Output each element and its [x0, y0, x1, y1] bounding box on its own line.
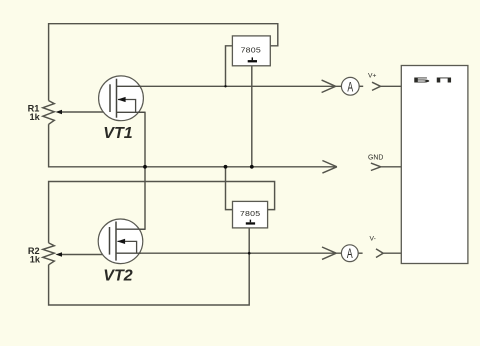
svg-text:A: A: [347, 246, 353, 262]
svg-text:A: A: [347, 79, 353, 95]
svg-text:БП: БП: [413, 76, 458, 84]
wire ammeter PA1 to V+ port: [359, 85, 363, 87]
svg-text:VT2: VT2: [103, 268, 132, 285]
wire R2 wiper to VT2 gate: [62, 254, 110, 256]
svg-text:GND: GND: [368, 155, 383, 162]
wire U2 output rail to R2 top: [49, 182, 275, 243]
svg-text:V+: V+: [368, 73, 376, 80]
wire V- port to PSU box: [382, 252, 402, 254]
big arrow on GND line: [322, 161, 337, 174]
wire R1 wiper to VT1 gate: [62, 111, 111, 113]
wire VT2 source to V- ammeter: [116, 252, 341, 254]
big arrow on V+ line: [322, 80, 336, 92]
node junction V- / U2 ground: [248, 252, 251, 255]
wire ammeter PA2 to V- port: [358, 252, 363, 254]
wire GND port to PSU box: [380, 166, 402, 168]
label R1 value: [28, 104, 41, 123]
R2 wiper arrow: [56, 252, 63, 257]
wire VT1 source to VT2 drain: [116, 112, 145, 229]
wire U2 input pin from GND rail: [226, 167, 233, 210]
svg-text:1k: 1k: [29, 112, 40, 122]
transistor VT1 (MOSFET): [99, 76, 145, 121]
node junction V+ / U1 input: [224, 85, 226, 87]
wire R2 bottom loop to U2 ground pin: [49, 228, 250, 305]
svg-text:7805: 7805: [241, 46, 262, 54]
R1 wiper arrow: [56, 110, 63, 115]
PSU box БП: [401, 66, 468, 264]
port arrow V-: [376, 249, 383, 258]
port arrow V+: [372, 82, 381, 90]
wire VT1 drain to V+ ammeter: [117, 85, 342, 87]
wire U1 input pin to V+ rail: [226, 46, 233, 87]
resistor R1 (potentiometer): [43, 101, 55, 125]
svg-text:V-: V-: [370, 236, 376, 243]
svg-text:VT1: VT1: [103, 125, 132, 142]
node junction GND / U1 ground: [250, 165, 254, 169]
label R2 value: [28, 246, 41, 265]
wire R1 bottom to GND rail: [49, 124, 337, 167]
svg-text:1k: 1k: [30, 255, 41, 265]
wire top loop: 7805 U1 output to R1 top: [49, 24, 278, 101]
wire U1 ground pin to GND rail: [251, 66, 253, 167]
ammeter PA1: [341, 77, 359, 95]
regulator U1 7805: [232, 36, 270, 66]
transistor VT2 (MOSFET): [98, 219, 145, 264]
resistor R2 (potentiometer): [43, 243, 55, 265]
node junction GND / U2 input: [224, 165, 228, 169]
wire V+ port to PSU box: [381, 85, 402, 87]
node junction GND / VT1-VT2: [143, 165, 147, 169]
svg-text:7805: 7805: [240, 210, 261, 218]
port arrow GND: [371, 163, 381, 170]
ammeter PA2: [341, 245, 358, 262]
regulator U2 7805: [233, 201, 268, 228]
big arrow on V- line: [322, 247, 336, 259]
